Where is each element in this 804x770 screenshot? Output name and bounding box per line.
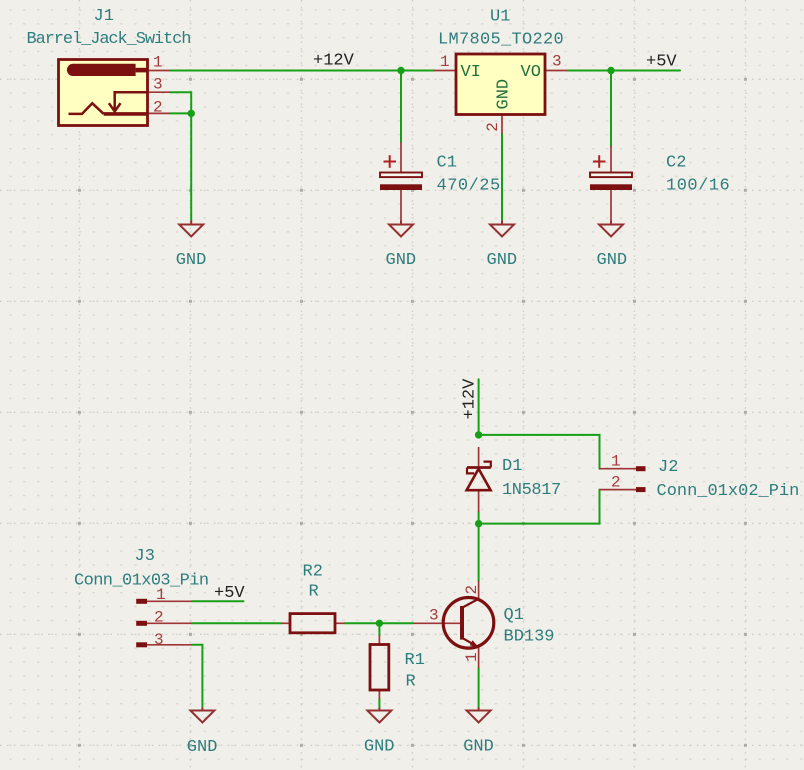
svg-text:GND: GND xyxy=(187,738,218,757)
svg-text:2: 2 xyxy=(463,585,481,595)
svg-text:VO: VO xyxy=(521,63,541,82)
svg-text:3: 3 xyxy=(429,607,439,625)
svg-text:Barrel_Jack_Switch: Barrel_Jack_Switch xyxy=(27,30,191,49)
svg-text:Q1: Q1 xyxy=(504,606,524,625)
svg-text:GND: GND xyxy=(495,79,514,110)
svg-text:GND: GND xyxy=(364,738,395,757)
svg-text:100/16: 100/16 xyxy=(666,177,730,196)
svg-text:+5V: +5V xyxy=(214,584,245,603)
svg-text:GND: GND xyxy=(487,251,518,270)
svg-text:GND: GND xyxy=(386,251,417,270)
svg-text:2: 2 xyxy=(484,122,502,132)
svg-text:D1: D1 xyxy=(502,457,522,476)
svg-text:GND: GND xyxy=(176,251,207,270)
svg-text:+5V: +5V xyxy=(646,53,677,72)
svg-text:J1: J1 xyxy=(94,7,114,26)
svg-text:BD139: BD139 xyxy=(504,628,555,647)
svg-text:1N5817: 1N5817 xyxy=(502,481,561,500)
svg-text:3: 3 xyxy=(153,76,163,94)
svg-text:1: 1 xyxy=(463,652,481,662)
svg-text:R: R xyxy=(309,583,319,602)
svg-text:+12V: +12V xyxy=(461,378,480,420)
svg-text:LM7805_TO220: LM7805_TO220 xyxy=(438,31,564,50)
svg-text:U1: U1 xyxy=(490,8,510,27)
svg-text:J3: J3 xyxy=(135,547,155,566)
svg-text:1: 1 xyxy=(440,53,450,71)
svg-text:J2: J2 xyxy=(658,458,678,477)
svg-text:C2: C2 xyxy=(666,154,686,173)
svg-text:2: 2 xyxy=(153,99,163,117)
svg-text:C1: C1 xyxy=(437,154,457,173)
svg-text:1: 1 xyxy=(153,54,163,72)
svg-text:2: 2 xyxy=(611,474,621,492)
svg-text:R1: R1 xyxy=(405,651,425,670)
svg-text:470/25: 470/25 xyxy=(437,177,501,196)
svg-text:1: 1 xyxy=(611,453,621,471)
svg-text:Conn_01x03_Pin: Conn_01x03_Pin xyxy=(74,572,208,591)
svg-text:GND: GND xyxy=(463,738,494,757)
svg-text:VI: VI xyxy=(461,63,481,82)
svg-text:3: 3 xyxy=(154,631,164,649)
svg-text:2: 2 xyxy=(154,608,164,626)
svg-text:+12V: +12V xyxy=(313,52,355,71)
svg-text:R2: R2 xyxy=(303,563,323,582)
svg-text:3: 3 xyxy=(552,53,562,71)
svg-text:R: R xyxy=(406,673,416,692)
svg-text:GND: GND xyxy=(597,251,628,270)
svg-text:Conn_01x02_Pin: Conn_01x02_Pin xyxy=(657,482,800,501)
